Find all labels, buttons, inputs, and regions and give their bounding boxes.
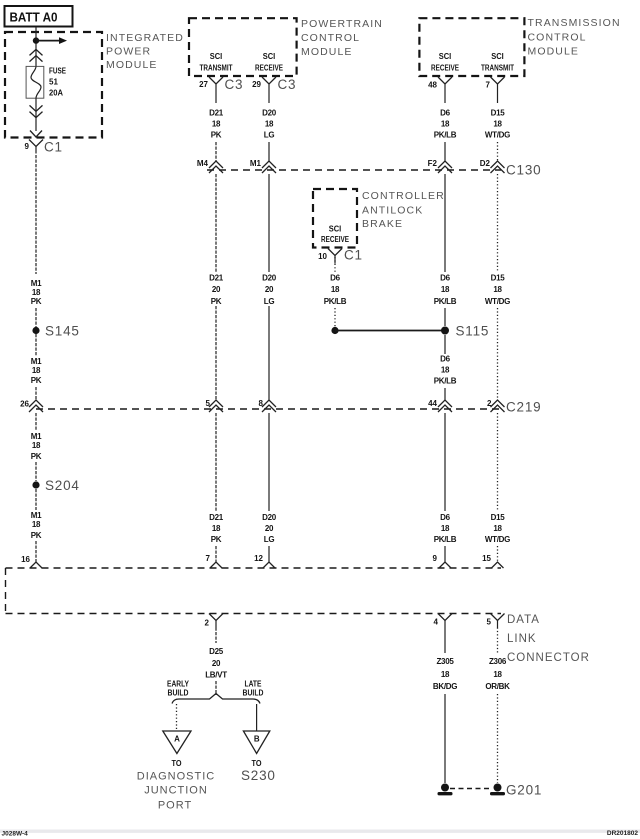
svg-text:D6: D6 — [440, 513, 450, 522]
wire M1 below C219 — [35, 413, 37, 431]
svg-text:18: 18 — [493, 120, 502, 129]
svg-text:PK: PK — [211, 297, 222, 306]
wire Z305 upper — [444, 628, 446, 654]
ground G201 right terminal — [490, 784, 505, 796]
wire Z305 to ground — [444, 694, 446, 783]
svg-text:PK: PK — [211, 131, 222, 140]
wire D15 below C219 — [497, 413, 499, 511]
svg-text:15: 15 — [482, 554, 491, 563]
svg-text:44: 44 — [428, 399, 437, 408]
svg-text:18: 18 — [441, 366, 450, 375]
svg-text:LATE: LATE — [245, 680, 263, 689]
svg-text:B: B — [254, 735, 260, 744]
wire D15 below C130 — [497, 174, 499, 272]
label M1 18 PK (1) — [31, 279, 42, 306]
svg-text:MODULE: MODULE — [301, 46, 353, 58]
svg-text:WT/DG: WT/DG — [485, 297, 510, 306]
wire D6 below C219 — [444, 413, 446, 511]
inline connector C219 line — [36, 408, 501, 410]
svg-text:D20: D20 — [262, 274, 277, 283]
svg-text:TRANSMIT: TRANSMIT — [200, 64, 233, 73]
label D21 20 PK — [209, 274, 224, 307]
wire D6 to C130 — [444, 142, 446, 161]
label D20 18 LG (upper) — [262, 109, 277, 140]
connector chevron M4 — [209, 161, 223, 173]
wire CAB stem upper — [334, 257, 336, 272]
wire D21 to line A — [215, 546, 217, 562]
svg-text:C1: C1 — [44, 140, 63, 155]
label EARLY BUILD — [167, 680, 190, 698]
wire M1 to line A — [35, 541, 37, 562]
inline connector line upper (to data link connector) — [6, 567, 502, 569]
connector chevron F2 — [438, 161, 452, 173]
svg-text:FUSE: FUSE — [49, 67, 67, 76]
connector fork pin 7 — [210, 562, 222, 568]
svg-text:PK/LB: PK/LB — [434, 131, 457, 140]
wire M1 from C1 down — [35, 155, 37, 274]
svg-text:29: 29 — [252, 80, 261, 89]
svg-text:S230: S230 — [241, 768, 276, 783]
connector chevron D2 — [491, 161, 505, 173]
svg-text:D21: D21 — [209, 274, 224, 283]
svg-text:LG: LG — [264, 535, 275, 544]
svg-text:TO: TO — [252, 759, 262, 768]
module label POWERTRAIN CONTROL MODULE — [301, 18, 383, 58]
svg-text:18: 18 — [493, 524, 502, 533]
splice node CAB — [331, 327, 338, 334]
svg-text:48: 48 — [428, 81, 437, 90]
ground G201 left terminal — [438, 784, 453, 796]
module label DATA LINK CONNECTOR — [507, 614, 590, 664]
connector C1 fork at IPM — [29, 140, 43, 154]
pin label SCI TRANSMIT — [200, 52, 233, 73]
connector C1 fork at CAB — [328, 249, 342, 264]
node battery junction — [33, 37, 39, 43]
data link connector line — [6, 613, 502, 615]
label M1 18 PK (2) — [31, 357, 42, 385]
svg-text:C3: C3 — [278, 77, 297, 92]
connector chevron pin 8 — [262, 400, 276, 412]
wire S115 down — [444, 335, 446, 354]
wire M1 to S204 — [35, 462, 37, 481]
svg-text:EARLY: EARLY — [167, 680, 190, 689]
wire D6 to S115 — [444, 308, 446, 326]
wire CAB stem to splice — [334, 308, 336, 327]
splice S115 — [441, 327, 449, 335]
svg-text:18: 18 — [493, 285, 502, 294]
svg-text:C219: C219 — [506, 400, 541, 415]
svg-text:D20: D20 — [262, 513, 277, 522]
svg-text:51: 51 — [49, 78, 58, 87]
svg-text:9: 9 — [433, 554, 438, 563]
wire D6 to C219 — [444, 388, 446, 401]
connector chevron pin 5 — [209, 400, 223, 412]
wire D15 to C219 — [497, 308, 499, 401]
connector chevron pin 44 — [438, 400, 452, 412]
svg-text:20: 20 — [212, 659, 221, 668]
connector fork pin 16 — [30, 562, 42, 568]
connector fork TCM pin 48 — [438, 77, 452, 103]
svg-text:CONNECTOR: CONNECTOR — [507, 652, 590, 664]
svg-text:INTEGRATED: INTEGRATED — [106, 32, 184, 44]
wire D21 to C130 — [215, 142, 217, 161]
svg-text:D21: D21 — [209, 109, 224, 118]
wire D15 to C130 — [497, 142, 499, 161]
svg-text:18: 18 — [441, 524, 450, 533]
svg-text:18: 18 — [265, 120, 274, 129]
scan artifact strip — [0, 830, 640, 833]
svg-text:18: 18 — [32, 366, 41, 375]
svg-text:D6: D6 — [440, 274, 450, 283]
label D6 18 PK/LB (mid) — [434, 274, 457, 307]
svg-text:D6: D6 — [330, 274, 340, 283]
inline connector chevrons below fuse — [30, 105, 43, 117]
svg-text:10: 10 — [318, 252, 327, 261]
svg-text:RECEIVE: RECEIVE — [255, 64, 284, 73]
svg-text:D2: D2 — [480, 159, 491, 168]
svg-text:C130: C130 — [506, 163, 541, 178]
svg-text:2: 2 — [205, 619, 210, 628]
svg-text:Z305: Z305 — [436, 657, 454, 666]
svg-text:D15: D15 — [491, 109, 506, 118]
wire battery feed into fuse — [35, 27, 37, 66]
wire wrap left edge — [5, 568, 7, 614]
label D20 20 LG (lower) — [262, 513, 277, 544]
svg-text:27: 27 — [199, 80, 208, 89]
label D6 18 PK/LB (lower) — [434, 513, 457, 544]
svg-text:18: 18 — [493, 670, 502, 679]
connector chevron M1 — [262, 161, 276, 173]
svg-text:MODULE: MODULE — [528, 46, 580, 58]
svg-text:SCI: SCI — [263, 52, 276, 61]
svg-text:18: 18 — [32, 520, 41, 529]
svg-text:18: 18 — [441, 120, 450, 129]
svg-text:D15: D15 — [491, 513, 506, 522]
svg-text:C1: C1 — [344, 248, 363, 263]
svg-text:MODULE: MODULE — [106, 59, 158, 71]
inline connector chevrons above fuse — [30, 49, 43, 61]
wire D20 to C130 — [268, 142, 270, 161]
svg-text:M1: M1 — [31, 511, 42, 520]
label D6 18 PK/LB (upper) — [434, 109, 457, 140]
battery feed box BATT A0 — [5, 6, 73, 27]
connector C3 fork pin 27 — [209, 77, 223, 103]
wire D20 below C219 — [268, 413, 270, 511]
wire D25 below DLC — [215, 628, 217, 644]
module label CONTROLLER ANTILOCK BRAKE — [362, 190, 445, 230]
svg-text:5: 5 — [487, 618, 492, 627]
svg-text:9: 9 — [25, 142, 30, 151]
svg-text:20: 20 — [212, 285, 221, 294]
wire D20 to line A — [268, 546, 270, 562]
svg-text:S145: S145 — [45, 324, 80, 339]
svg-text:PK/LB: PK/LB — [434, 535, 457, 544]
svg-text:WT/DG: WT/DG — [485, 535, 510, 544]
svg-text:18: 18 — [32, 288, 41, 297]
svg-text:LB/VT: LB/VT — [205, 671, 227, 680]
module label TRANSMISSION CONTROL MODULE — [528, 17, 621, 58]
svg-text:D20: D20 — [262, 109, 277, 118]
connector fork pin 15 — [492, 562, 504, 568]
svg-text:SCI: SCI — [439, 52, 452, 61]
svg-text:26: 26 — [20, 400, 29, 409]
svg-text:TO: TO — [172, 759, 182, 768]
pin label SCI RECEIVE — [255, 52, 284, 73]
svg-text:F2: F2 — [428, 159, 438, 168]
svg-text:BK/DG: BK/DG — [433, 682, 457, 691]
label Z305 18 BK/DG — [433, 657, 457, 691]
svg-text:20A: 20A — [49, 89, 63, 98]
connector fork pin 5 DLC — [491, 614, 505, 628]
svg-text:D21: D21 — [209, 513, 224, 522]
transmission control module box — [419, 18, 524, 76]
svg-text:PK/LB: PK/LB — [434, 297, 457, 306]
connector fork pin 4 DLC — [438, 614, 452, 628]
svg-text:DIAGNOSTIC: DIAGNOSTIC — [137, 771, 215, 783]
svg-text:DR201802: DR201802 — [607, 830, 638, 837]
off-page triangle A — [163, 731, 191, 754]
svg-text:PK/LB: PK/LB — [434, 377, 457, 386]
svg-text:PK: PK — [31, 297, 42, 306]
svg-text:POWERTRAIN: POWERTRAIN — [301, 18, 383, 30]
svg-text:18: 18 — [32, 441, 41, 450]
svg-text:BUILD: BUILD — [243, 689, 264, 698]
svg-text:PORT: PORT — [158, 800, 192, 812]
svg-text:BUILD: BUILD — [168, 689, 189, 698]
svg-text:M1: M1 — [250, 159, 262, 168]
svg-text:PK: PK — [31, 452, 42, 461]
svg-text:D25: D25 — [209, 647, 224, 656]
svg-text:JUNCTION: JUNCTION — [144, 785, 208, 797]
label D21 18 PK (upper) — [209, 109, 224, 140]
wire Z306 upper — [497, 628, 499, 654]
connector fork pin 12 — [263, 562, 275, 568]
svg-text:LINK: LINK — [507, 633, 537, 645]
label D15 18 WT/DG (lower) — [485, 513, 510, 544]
svg-text:J028W-4: J028W-4 — [2, 831, 29, 838]
wire D25 to split — [215, 681, 217, 695]
wire early build branch — [176, 704, 178, 731]
svg-text:CONTROLLER: CONTROLLER — [362, 190, 445, 202]
splice S145 — [32, 327, 39, 334]
svg-text:SCI: SCI — [329, 225, 342, 234]
svg-text:S204: S204 — [45, 478, 80, 493]
build split brace — [172, 694, 260, 704]
svg-text:CONTROL: CONTROL — [301, 32, 360, 44]
svg-text:TRANSMIT: TRANSMIT — [481, 64, 514, 73]
connector fork pin 9 — [439, 562, 451, 568]
wire D21 below C130 — [215, 174, 217, 272]
svg-text:ANTILOCK: ANTILOCK — [362, 205, 423, 217]
wire ground jumper — [450, 788, 493, 790]
label D15 18 WT/DG (upper) — [485, 109, 510, 140]
inline connector C130 line — [207, 169, 501, 171]
svg-text:OR/BK: OR/BK — [485, 682, 510, 691]
connector fork TCM pin 7 — [491, 77, 505, 103]
svg-text:20: 20 — [265, 524, 274, 533]
label M1 18 PK (4) — [31, 511, 42, 540]
svg-text:PK/LB: PK/LB — [324, 297, 347, 306]
svg-text:SCI: SCI — [491, 52, 504, 61]
wire late build branch — [256, 704, 258, 731]
off-page triangle B — [243, 731, 269, 754]
svg-text:CONTROL: CONTROL — [528, 32, 587, 44]
svg-text:20: 20 — [265, 285, 274, 294]
svg-text:7: 7 — [486, 81, 491, 90]
svg-text:18: 18 — [331, 285, 340, 294]
svg-text:M4: M4 — [197, 159, 209, 168]
fuse F51 — [26, 66, 44, 98]
svg-text:C3: C3 — [225, 77, 244, 92]
svg-text:18: 18 — [212, 524, 221, 533]
label D6 18 PK/LB (CAB) — [324, 274, 347, 307]
wire D21 below C219 — [215, 413, 217, 511]
label D21 18 PK (lower) — [209, 513, 224, 544]
connector fork pin 2 DLC — [209, 614, 223, 628]
wire fuse to IPM exit — [35, 98, 37, 131]
integrated power module box — [5, 32, 102, 138]
wire D6 to line A — [444, 546, 446, 562]
svg-text:D6: D6 — [440, 355, 450, 364]
wire D15 to line A — [497, 546, 499, 562]
powertrain control module box — [189, 18, 297, 76]
svg-text:LG: LG — [264, 297, 275, 306]
label LATE BUILD — [243, 680, 264, 698]
svg-text:PK: PK — [31, 531, 42, 540]
wire D20 to C219 — [268, 306, 270, 401]
label Z306 18 OR/BK — [485, 657, 510, 691]
wire Z306 to ground — [497, 694, 499, 783]
battery feed arrow — [36, 37, 67, 44]
wire D6 below C130 — [444, 174, 446, 272]
svg-text:16: 16 — [21, 555, 30, 564]
label M1 18 PK (3) — [31, 432, 42, 461]
label D6 18 PK/LB (below S115) — [434, 355, 457, 386]
svg-text:G201: G201 — [506, 783, 542, 798]
connector chevron pin 26 — [29, 400, 43, 412]
svg-text:PK: PK — [211, 535, 222, 544]
pin label SCI RECEIVE (CAB) — [321, 225, 350, 245]
svg-text:SCI: SCI — [210, 52, 223, 61]
svg-text:M1: M1 — [31, 357, 42, 366]
value label FUSE 51 20A — [49, 67, 67, 98]
svg-text:LG: LG — [264, 131, 275, 140]
wire D20 below C130 — [268, 174, 270, 272]
wire S145 down — [35, 334, 37, 356]
svg-text:BATT A0: BATT A0 — [10, 11, 58, 25]
svg-text:RECEIVE: RECEIVE — [431, 64, 460, 73]
svg-text:BRAKE: BRAKE — [362, 218, 403, 230]
svg-text:D6: D6 — [440, 109, 450, 118]
destination label DIAGNOSTIC JUNCTION PORT — [137, 771, 215, 812]
module label INTEGRATED POWER MODULE — [106, 32, 184, 71]
svg-text:M1: M1 — [31, 432, 42, 441]
wire M1 to S145 — [35, 308, 37, 327]
svg-text:A: A — [174, 735, 180, 744]
svg-text:TRANSMISSION: TRANSMISSION — [528, 17, 621, 29]
svg-text:4: 4 — [434, 618, 439, 627]
svg-text:POWER: POWER — [106, 46, 151, 58]
svg-text:18: 18 — [212, 120, 221, 129]
connector chevron pin 2 C219 — [491, 400, 505, 412]
svg-text:S115: S115 — [456, 324, 490, 339]
arrowhead at IPM exit — [30, 131, 42, 138]
pin label SCI TRANSMIT (TCM) — [481, 52, 514, 73]
pin label SCI RECEIVE (TCM) — [431, 52, 460, 73]
wire S204 down — [35, 489, 37, 510]
svg-text:WT/DG: WT/DG — [485, 131, 510, 140]
wire splice jumper CAB to S115 — [335, 330, 445, 332]
svg-text:7: 7 — [206, 554, 211, 563]
svg-text:Z306: Z306 — [489, 657, 507, 666]
svg-text:18: 18 — [441, 670, 450, 679]
controller antilock brake box — [313, 189, 357, 248]
svg-text:M1: M1 — [31, 279, 42, 288]
svg-text:DATA: DATA — [507, 614, 540, 626]
svg-text:PK: PK — [31, 376, 42, 385]
connector C3 fork pin 29 — [262, 77, 276, 103]
svg-text:RECEIVE: RECEIVE — [321, 235, 350, 244]
wire D21 to C219 — [215, 306, 217, 401]
label D20 20 LG — [262, 274, 277, 307]
svg-text:D15: D15 — [491, 274, 506, 283]
svg-text:12: 12 — [254, 554, 263, 563]
wire M1 to C219 — [35, 387, 37, 401]
label D15 18 WT/DG (mid) — [485, 274, 510, 307]
splice S204 — [32, 481, 39, 488]
label D25 20 LB/VT — [205, 647, 227, 680]
svg-text:18: 18 — [441, 285, 450, 294]
